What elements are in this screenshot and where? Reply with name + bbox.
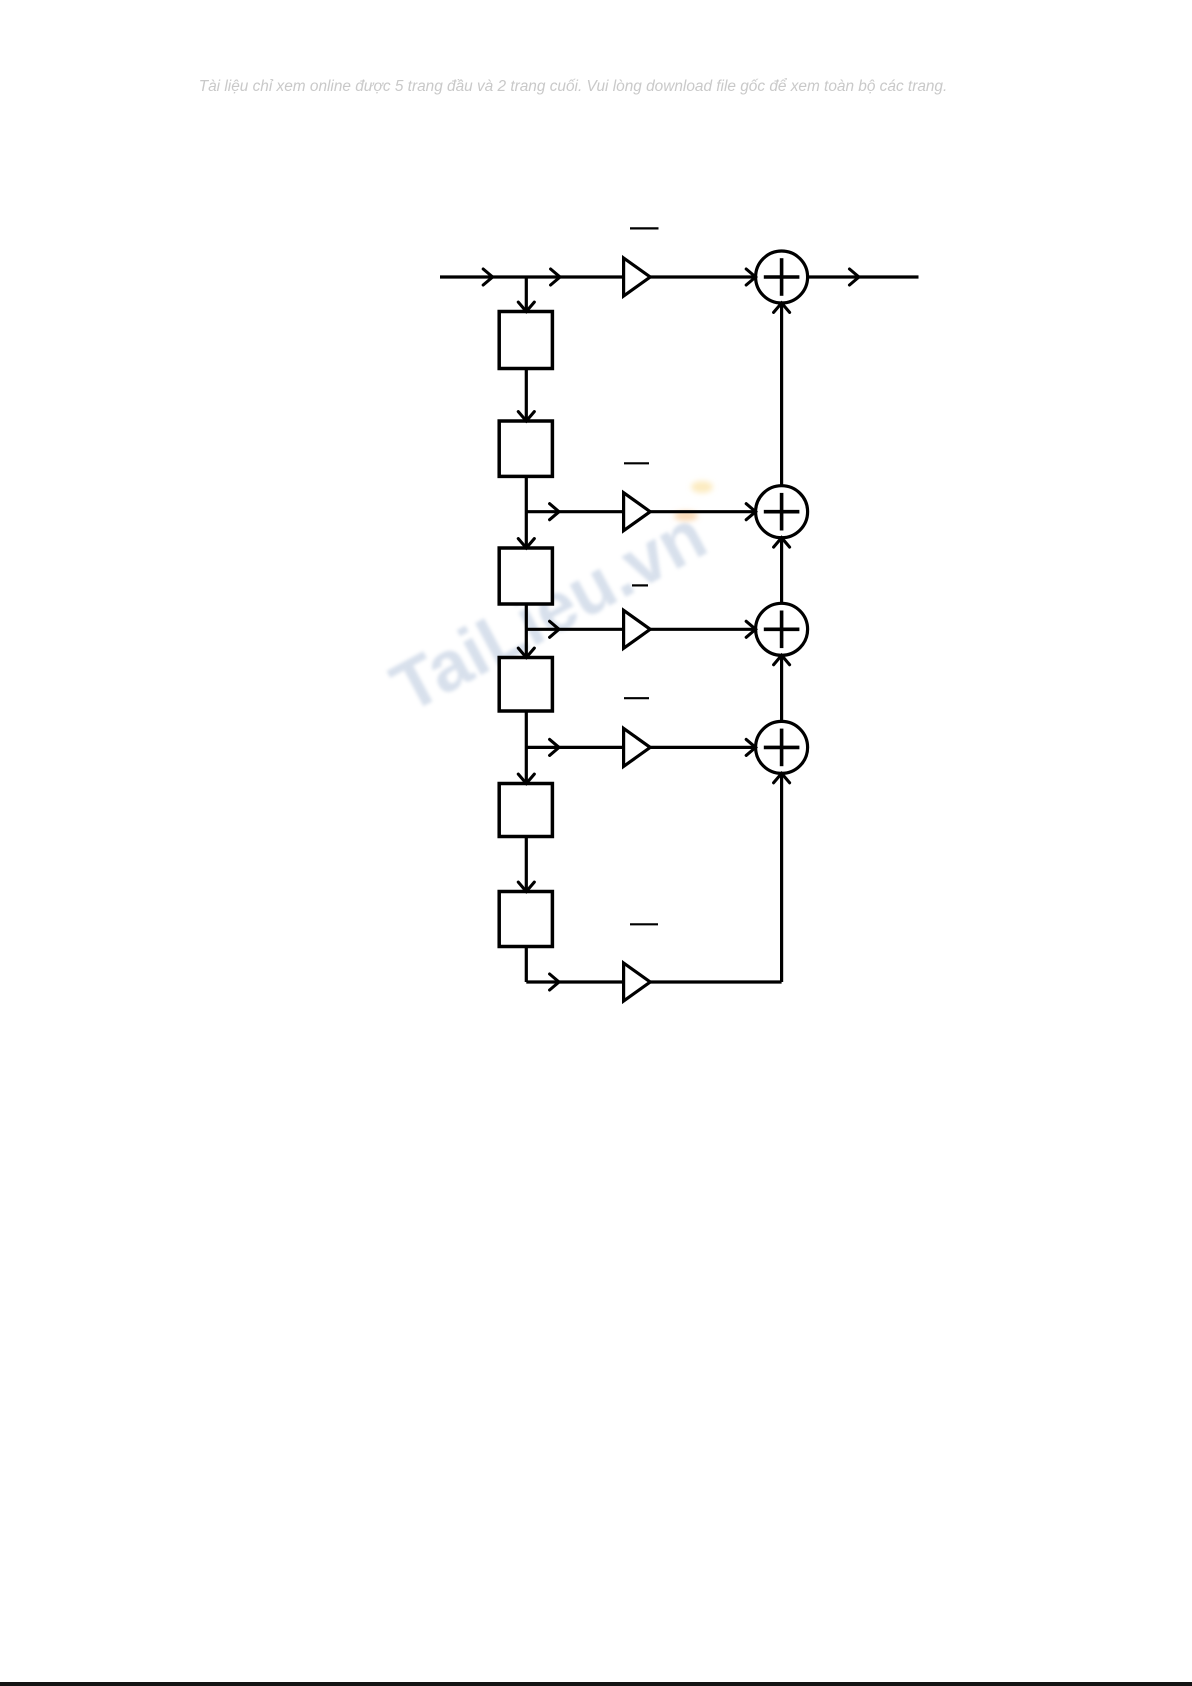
watermark logo swoosh: [674, 481, 713, 521]
wire: left vertical delay chain: [525, 277, 528, 982]
overbar label row5: [630, 923, 658, 925]
adder S4: [756, 721, 808, 773]
bottom page edge bar: [0, 1682, 1192, 1686]
arrowhead into S3 left: [746, 621, 755, 637]
overbar label row4: [624, 697, 649, 699]
arrowhead bottom row start: [550, 974, 559, 990]
adder S1: [756, 251, 808, 303]
wire: top input/output line: [440, 275, 919, 278]
arrowhead into box z1: [518, 302, 534, 311]
gain triangle b2: [624, 610, 651, 648]
wire: bottom row: [526, 980, 781, 983]
delay block z3: [499, 548, 552, 604]
svg-text:Tài liệu chỉ xem online được 5: Tài liệu chỉ xem online được 5 trang đầu…: [199, 78, 948, 95]
overbar label row1: [630, 227, 659, 229]
overbar label row3: [632, 584, 648, 586]
wire: right vertical adder chain: [780, 303, 783, 982]
arrowhead row4 start: [550, 739, 559, 755]
arrowhead into box z5: [518, 774, 534, 783]
arrowhead into box z6: [518, 882, 534, 891]
wire: tap row 4: [526, 746, 781, 749]
wire: tap row 2: [526, 510, 781, 513]
wire: tap row 3: [526, 628, 781, 631]
arrowhead row2 start: [550, 504, 559, 520]
arrowhead up into S1 bottom: [774, 303, 790, 312]
adder S2: [756, 486, 808, 538]
overbar label row2: [624, 462, 649, 464]
arrowhead output: [850, 269, 859, 285]
arrowhead into S2 left: [746, 504, 755, 520]
watermark text TaiLieu.vn: [379, 494, 719, 727]
gain triangle b3: [624, 728, 651, 766]
arrowhead up into S3 bottom: [774, 655, 790, 664]
arrowhead row3 start: [550, 621, 559, 637]
arrowhead into box z4: [518, 648, 534, 657]
gain triangle b4: [624, 963, 651, 1001]
gain triangle b1: [624, 493, 651, 531]
delay block z2: [499, 421, 552, 476]
arrowhead into S4 left: [746, 739, 755, 755]
gain triangle b0: [624, 258, 651, 296]
delay block z4: [499, 658, 552, 712]
arrowhead up into S4 bottom: [774, 773, 790, 782]
arrowhead into box z3: [518, 539, 534, 548]
delay block z6: [499, 892, 552, 947]
arrowhead input: [483, 269, 492, 285]
arrowhead after junction top: [551, 269, 560, 285]
arrowhead into box z2: [518, 412, 534, 421]
adder S3: [756, 603, 808, 655]
delay block z1: [499, 312, 552, 369]
delay block z5: [499, 784, 552, 837]
arrowhead up into S2 bottom: [774, 538, 790, 547]
arrowhead into S1 left: [746, 269, 755, 285]
